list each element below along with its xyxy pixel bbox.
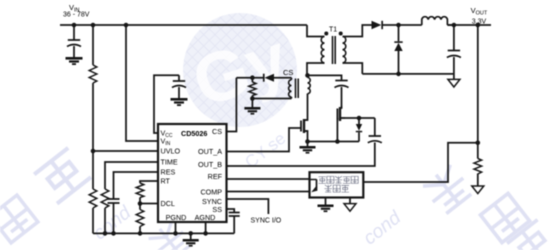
svg-text:CS: CS — [212, 127, 222, 136]
svg-text:OUT_A: OUT_A — [198, 147, 222, 156]
svg-text:OUT_B: OUT_B — [198, 160, 222, 169]
svg-text:3.3V: 3.3V — [472, 19, 487, 26]
svg-text:36 - 78V: 36 - 78V — [63, 12, 90, 19]
svg-text:COMP: COMP — [200, 188, 222, 197]
svg-text:TIME: TIME — [161, 158, 178, 167]
svg-text:SS: SS — [212, 205, 222, 214]
svg-text:T1: T1 — [329, 27, 337, 34]
svg-text:CS: CS — [283, 68, 293, 77]
svg-text:DCL: DCL — [161, 199, 175, 208]
svg-text:UVLO: UVLO — [161, 147, 181, 156]
svg-text:RES: RES — [161, 168, 176, 177]
svg-text:PGND: PGND — [166, 213, 187, 222]
svg-text:REF: REF — [208, 172, 223, 181]
svg-text:CD5026: CD5026 — [181, 129, 207, 138]
svg-text:SYNC I/O: SYNC I/O — [251, 218, 282, 225]
svg-text:VOUT: VOUT — [471, 6, 488, 17]
svg-text:RT: RT — [161, 177, 171, 186]
svg-text:cond: cond — [360, 207, 407, 250]
svg-text:AGND: AGND — [195, 213, 216, 222]
